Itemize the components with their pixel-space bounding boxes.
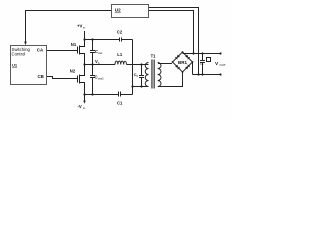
capacitor Coss1 upper leads [92,40,94,65]
svg-text:+V: +V [77,24,83,29]
junction Co on output top rail [201,52,203,54]
wire output top rail [183,53,221,55]
diode top-right [185,55,190,60]
wire C2 leg down to C1 junction [132,40,134,95]
inductor L1 [115,61,127,64]
wire feedback from control box top to U2 [26,11,112,45]
diode top-left [175,55,180,60]
svg-text:-V: -V [78,104,82,109]
wire top rail [85,39,133,41]
svg-text:U2: U2 [115,8,121,13]
junction Co on output bottom rail [201,73,203,75]
svg-text:N2: N2 [70,68,76,73]
transformer T1 primary winding [145,63,148,87]
svg-text:oss2: oss2 [98,77,104,81]
wire U2 output upper to output bottom rail [149,8,199,75]
wire -Vin stub [84,95,86,101]
svg-text:T1: T1 [151,54,157,59]
wire secondary bottom [158,72,183,87]
wire +Vin stub [84,31,86,40]
svg-text:L1: L1 [117,52,123,57]
svg-text:CB: CB [38,74,44,79]
node Vout+ terminal [219,52,221,54]
U2 feedback box [112,5,149,18]
transformer T1 secondary winding [158,63,161,87]
svg-text:C1: C1 [117,100,123,105]
junction feedback sense on output top rail [192,52,194,54]
svg-text:in: in [83,106,86,110]
transistor N2 [78,65,85,95]
junction Coss rail on bottom rail [91,93,93,95]
junction bridge right vertex [192,61,194,63]
junction Coss rail on top rail [91,38,93,40]
wire node Va mid [85,64,149,66]
bridge rectifier BR1 diamond [173,52,193,72]
junction +Vin / N1 drain on top rail [83,38,85,40]
junction Cd branch on node A wire [140,63,142,65]
svg-text:Control: Control [12,52,26,57]
capacitor C1 plates [119,92,121,97]
junction Cd branch at primary bottom [140,85,142,87]
wire output bottom rail [193,74,221,76]
wire U2 output lower to output top rail [149,11,194,54]
junction N2 source on bottom rail [83,93,85,95]
svg-text:oss: oss [98,51,103,55]
svg-text:d: d [137,74,139,78]
svg-text:CA: CA [37,47,44,52]
junction C1/C2 leg at primary bottom [131,85,133,87]
diode bottom-right [185,65,190,70]
junction bridge left vertex [172,61,174,63]
arrow -Vin [83,101,86,104]
capacitor C2 plates [120,38,122,42]
arrow into box top [24,42,27,46]
svg-text:N1: N1 [71,42,77,47]
wire bottom rail [85,94,133,96]
svg-text:V: V [215,61,219,67]
wire CA [47,50,78,52]
junction Coss rail on node A wire [91,63,93,65]
svg-text:Co: Co [200,62,204,66]
junction bridge top vertex [182,51,184,53]
svg-text:A: A [98,61,100,65]
junction feedback sense on output bottom rail [197,73,199,75]
wire primary bottom [133,86,149,88]
wire CB [47,77,78,79]
junction bridge bottom vertex [182,71,184,73]
svg-text:in: in [83,26,86,30]
capacitor Cd parallel branch [141,65,143,87]
switching control box U1 [11,46,47,85]
label box next to output capacitor Co [207,58,211,62]
svg-text:OUT: OUT [219,63,226,67]
transistor N1 [78,40,85,65]
transformer T1 core [151,60,152,89]
svg-text:U1: U1 [12,63,18,68]
svg-text:BR1: BR1 [178,60,187,65]
junction node A at N1 source / N2 drain [83,63,85,65]
svg-text:C2: C2 [117,29,123,34]
output capacitor Co [202,54,204,75]
wire bridge right vertex drop [192,62,194,75]
wire secondary top [158,63,172,65]
diode bottom-left [175,65,180,70]
node Vout- terminal [219,73,221,75]
capacitor Coss2 lower leads [92,65,94,95]
